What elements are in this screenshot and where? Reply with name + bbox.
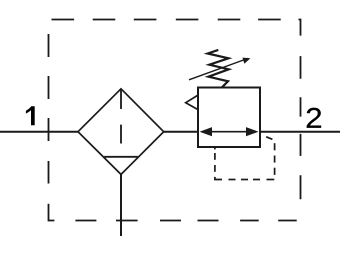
drain line [120,174,122,236]
wire filter to regulator [164,131,199,133]
enclosure dashed box [49,20,301,221]
pilot right vertical dash [274,143,276,150]
enclosure left edge dashes [48,34,50,184]
spring zigzag [208,50,229,87]
enclosure top-right corner dash [299,20,301,36]
adjustment arrow shaft [189,58,248,79]
filter condensate chord [104,156,138,158]
pilot right vertical dash [274,168,276,175]
pilot left vertical dash [214,165,216,172]
pilot bottom dash [267,179,275,181]
regulator flow arrow left head [200,127,213,136]
pilot dashed line [215,137,275,180]
pilot slanted dash near port 2 line [266,137,272,140]
pilot bottom-left corner dash [215,177,222,180]
pilot bottom dash [253,179,260,181]
pilot tick at regulator bottom [214,147,216,149]
label 2 [307,108,321,128]
enclosure bottom edge dashes [75,220,296,222]
pilot bottom dash [241,179,248,181]
pilot right vertical dash [274,156,276,163]
label 1 [26,106,35,125]
filter center dashed line [120,89,122,144]
pilot bottom dash [229,179,236,181]
regulator flow arrow shaft [206,131,252,133]
pilot left vertical dash [214,153,216,160]
adjustment arrow head [242,58,250,64]
regulator flow arrow right head [246,127,259,136]
enclosure right edge dashes [300,56,302,199]
filter F1 diamond [78,89,164,175]
enclosure top edge dashes [52,19,281,21]
regulator R1 box [198,88,260,148]
port 1 line [0,131,79,133]
enclosure bottom-left corner dash [49,204,55,221]
port 2 line [259,131,340,133]
relief triangle on regulator left edge [186,95,199,110]
